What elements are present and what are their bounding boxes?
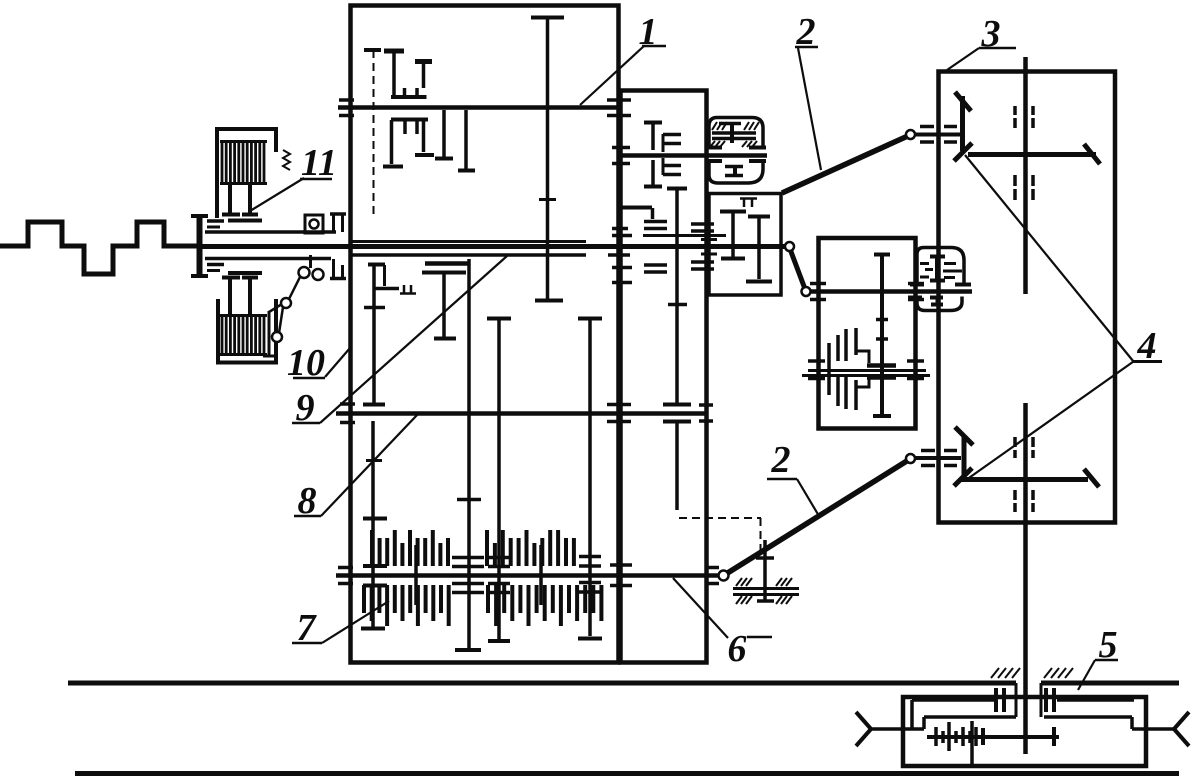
svg-text:11: 11 bbox=[301, 142, 337, 184]
svg-text:7: 7 bbox=[297, 607, 318, 649]
svg-text:10: 10 bbox=[287, 342, 325, 384]
svg-text:8: 8 bbox=[298, 480, 317, 522]
svg-text:9: 9 bbox=[296, 387, 315, 429]
svg-text:2: 2 bbox=[771, 439, 791, 481]
svg-text:6: 6 bbox=[728, 628, 747, 670]
svg-text:5: 5 bbox=[1099, 624, 1118, 666]
svg-text:1: 1 bbox=[639, 11, 658, 53]
svg-text:3: 3 bbox=[981, 13, 1001, 55]
svg-text:4: 4 bbox=[1137, 325, 1157, 367]
svg-text:2: 2 bbox=[796, 11, 816, 53]
